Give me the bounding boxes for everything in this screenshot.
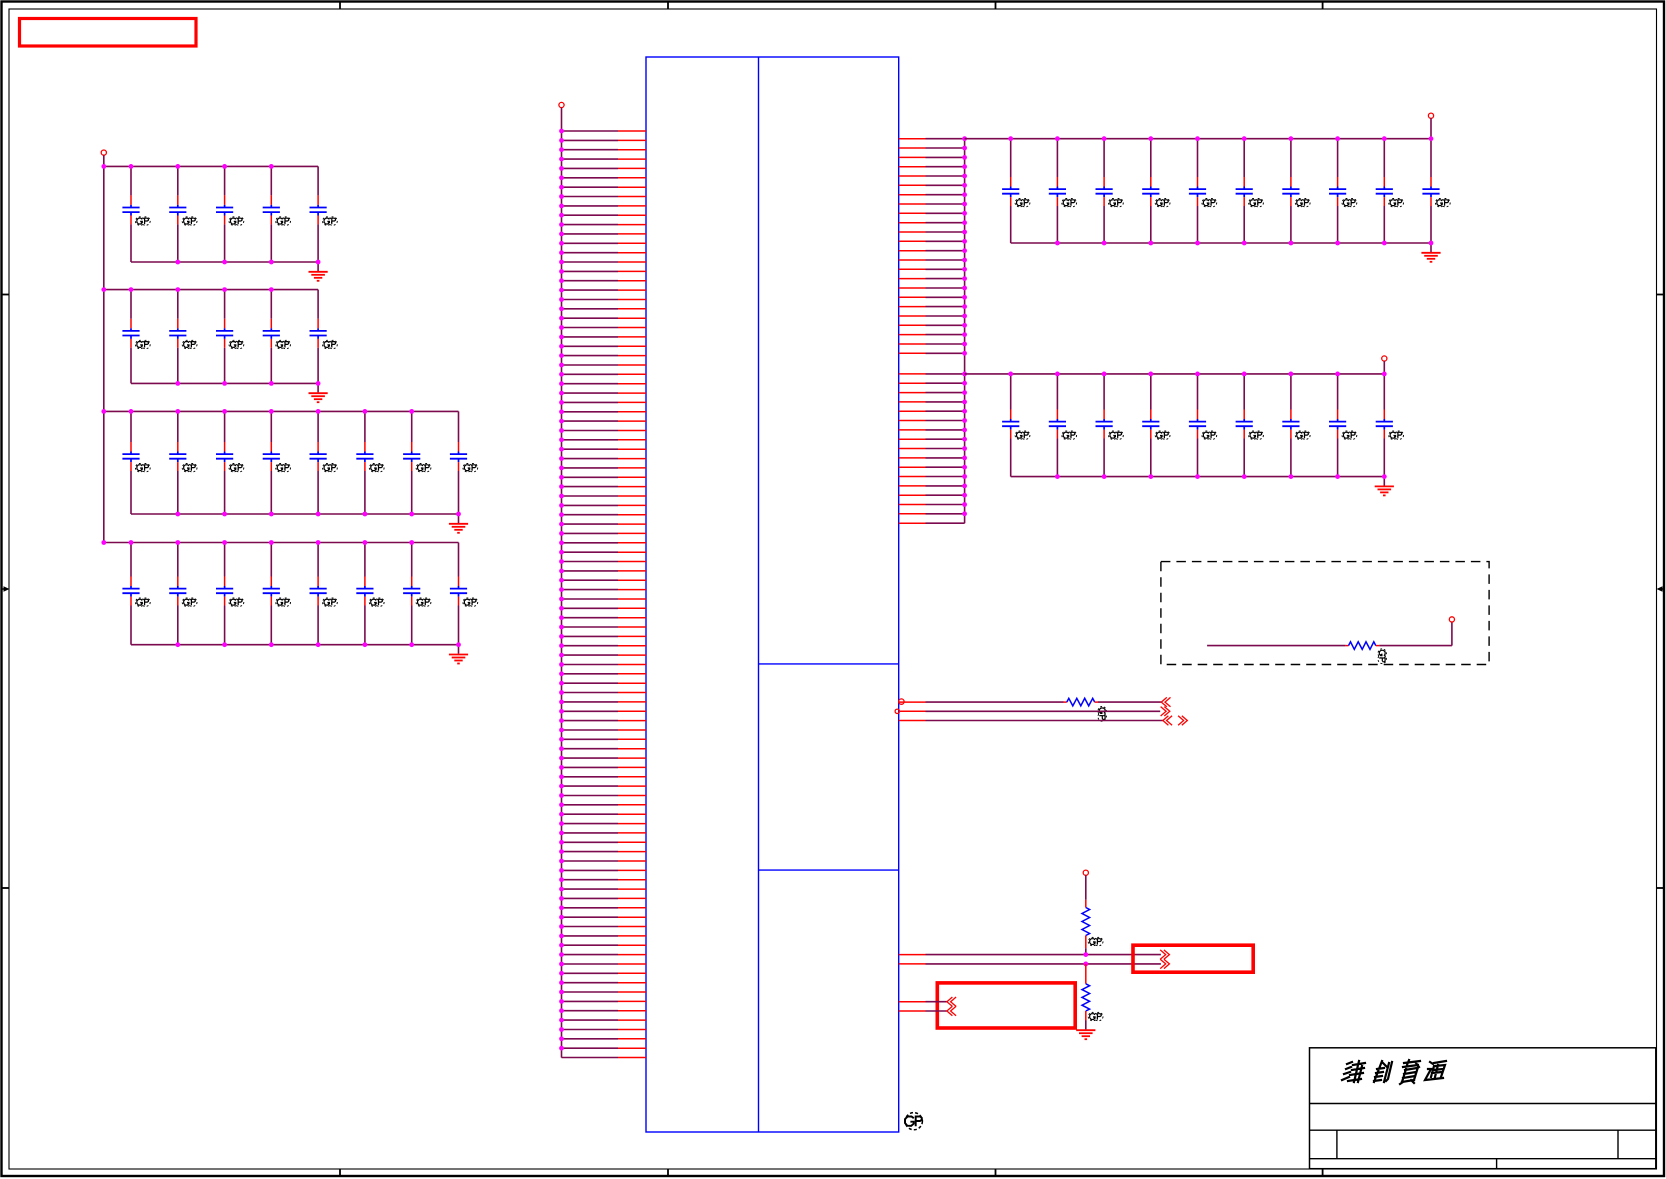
wire IC left pin 31 [562,411,647,413]
wire IC left pin 72 [562,795,647,797]
red annotation box (top-left) [20,19,197,47]
wire IC left pin 55 [562,635,647,637]
wire IC right pin group1 20 [899,315,965,317]
resistor R1 (in dashed box) [1349,642,1376,650]
wire IC right pin group1 23 [899,343,965,345]
junction B [1083,962,1088,967]
capacitor C35 (bypass) [1376,139,1404,243]
wire IC left pin 74 [562,813,647,815]
wire IC left pin 13 [562,242,647,244]
wire IC right pin group2 3 [899,392,965,394]
wire IC left pin 46 [562,551,647,553]
wire IC left pin 57 [562,654,647,656]
resistor R3 (pull-up) [1082,908,1090,936]
wire IC right pin group2 6 [899,420,965,422]
wire IC right pin group1 2 [899,147,965,149]
wire IC right pin group2 14 [899,494,965,496]
GP marker (R2) [1098,707,1106,722]
wire IC left pin 79 [562,860,647,862]
IC U1 GP marker [905,1113,922,1130]
capacitor C39 (bypass) [1096,374,1124,477]
wire IC left pin 2 [562,139,647,141]
wire top rail left bank 4 [104,542,459,544]
wire IC left pin 59 [562,673,647,675]
wire IC left pin 28 [562,383,647,385]
wire IC left pin 82 [562,888,647,890]
power node (right cap bank 2) [1382,356,1387,374]
power node (dashed box) [1449,617,1454,622]
wire IC right pin group1 12 [899,240,965,242]
wire IC left pin 52 [562,607,647,609]
wire IC left pin 99 [562,1047,647,1049]
wire IC right pin group1 9 [899,212,965,214]
junction dots right bus [962,136,967,516]
capacitor C34 (bypass) [1329,139,1357,243]
wire IC right pin group2 2 [899,382,965,384]
wire IC left pin 22 [562,327,647,329]
wire R3 to junction [1085,936,1087,955]
capacitor C27 (bypass) [1002,139,1030,243]
wire IC right pin group1 21 [899,324,965,326]
capacitor C13 (bypass) [216,411,244,514]
wire middle net 3 [899,720,1163,722]
wire IC right pin group1 8 [899,203,965,205]
wire IC right pin group2 8 [899,438,965,440]
wire IC left pin 35 [562,448,647,450]
wire IC left pin 94 [562,1000,647,1002]
capacitor C11 (bypass) [122,411,150,514]
wire IC right pin group1 6 [899,184,965,186]
resistor R4 (pull-down) [1082,984,1090,1011]
GP marker (R4) [1088,1012,1103,1020]
wire (dashed box net right) [1376,622,1452,646]
wire IC right pin group2 7 [899,429,965,431]
wire bottom net A [899,954,1161,956]
wire IC right pin group1 14 [899,259,965,261]
wire IC left pin 84 [562,907,647,909]
wire IC right pin group1 22 [899,334,965,336]
capacitor C14 (bypass) [263,411,291,514]
ground (pull-down) [1076,1020,1095,1039]
wire IC left pin 39 [562,486,647,488]
wire IC left pin 18 [562,289,647,291]
wire junction to R4 [1085,964,1087,984]
wire middle net 1 (left of R2) [899,699,1067,704]
wire IC left pin 69 [562,766,647,768]
wire bottom net C [899,1001,947,1003]
capacitor C16 (bypass) [356,411,384,514]
wire IC left pin 51 [562,598,647,600]
wire middle net 2 [895,709,1160,713]
capacitor C8 (bypass) [216,290,244,384]
capacitor C33 (bypass) [1282,139,1310,243]
junction dots left bank 3 [101,409,461,516]
wire IC right pin group1 10 [899,222,965,224]
wire IC left pin 77 [562,841,647,843]
ground (left bank 3) [449,514,468,533]
wire IC left pin 100 [562,1057,647,1059]
wire IC left pin 73 [562,804,647,806]
wire IC left pin 71 [562,785,647,787]
wire IC right pin group1 24 [899,352,965,354]
wire IC left pin 76 [562,832,647,834]
capacitor C42 (bypass) [1236,374,1264,477]
wire IC left pin 66 [562,738,647,740]
wire IC left pin 20 [562,308,647,310]
wire IC left pin 5 [562,167,647,169]
capacitor C19 (bypass) [122,543,150,645]
capacitor C15 (bypass) [310,411,338,514]
wire bottom rail right bank 2 [1011,476,1385,478]
capacitor C6 (bypass) [122,290,150,384]
wire IC left pin 44 [562,532,647,534]
wire IC left pin 30 [562,401,647,403]
off-page connector net3 left [1163,716,1172,725]
capacitor C21 (bypass) [216,543,244,645]
wire IC left pin 26 [562,364,647,366]
wire IC left pin 96 [562,1019,647,1021]
wire IC left pin 63 [562,710,647,712]
wire IC left pin 6 [562,177,647,179]
ground (left bank 1) [309,262,328,281]
capacitor C1 (bypass) [122,166,150,262]
capacitor C12 (bypass) [169,411,197,514]
wire IC left pin 97 [562,1029,647,1031]
off-page connector net D [947,1006,956,1015]
wire IC left pin 38 [562,476,647,478]
wire IC left pin 42 [562,514,647,516]
wire R4 to ground [1085,1011,1087,1021]
off-page connector net3 right [1178,716,1187,725]
capacitor C41 (bypass) [1189,374,1217,477]
title block frame [1310,1048,1656,1169]
wire IC right pin group1 1 [899,138,965,140]
capacitor C24 (bypass) [356,543,384,645]
wire IC left pin 24 [562,345,647,347]
wire top rail left bank 1 [104,165,318,167]
wire IC left pin 91 [562,972,647,974]
power node (left pin bus) [559,102,564,131]
power node (right cap bank 1) [1428,113,1433,139]
ground (left bank 4) [449,645,468,664]
wire bottom rail left bank 3 [131,513,459,515]
capacitor C22 (bypass) [263,543,291,645]
wire IC left pin 62 [562,701,647,703]
wire top rail right bank 2 [965,373,1385,375]
capacitor C43 (bypass) [1282,374,1310,477]
wire IC right pin group2 9 [899,448,965,450]
wire IC left pin 4 [562,158,647,160]
wire IC left pin 78 [562,851,647,853]
red annotation box 2 (left) [937,983,1075,1028]
wire IC left pin 17 [562,280,647,282]
capacitor C7 (bypass) [169,290,197,384]
capacitor C25 (bypass) [403,543,431,645]
ground (right bank 2) [1375,477,1394,496]
wire IC left pin 48 [562,570,647,572]
wire IC left pin 90 [562,963,647,965]
wire IC left pin 9 [562,205,647,207]
wire top rail left bank 3 [104,410,459,412]
wire IC right pin group1 18 [899,296,965,298]
wire IC left pin 27 [562,373,647,375]
ground (left bank 2) [309,383,328,402]
junction dots left bus [559,129,564,1051]
wire IC right pin group2 1 [899,373,965,375]
wire bottom net D [899,1010,947,1012]
wire IC left pin 12 [562,233,647,235]
capacitor C2 (bypass) [169,166,197,262]
ground (right bank 1) [1421,243,1440,262]
wire IC left pin 29 [562,392,647,394]
wire IC right pin group2 13 [899,485,965,487]
wire IC left pin 8 [562,196,647,198]
wire IC left pin 1 [562,130,647,132]
capacitor C38 (bypass) [1049,374,1077,477]
wire IC right pin group2 12 [899,476,965,478]
wire IC left pin 15 [562,261,647,263]
wire IC left pin 53 [562,617,647,619]
wire IC left pin 23 [562,336,647,338]
border zone ticks left/right [2,295,1665,889]
wire IC left pin 75 [562,823,647,825]
capacitor C29 (bypass) [1096,139,1124,243]
off-page connector net B [1160,959,1169,968]
border center arrow right [1657,586,1665,592]
capacitor C3 (bypass) [216,166,244,262]
wire IC right pin group2 16 [899,513,965,515]
resistor R2 [1067,698,1095,706]
capacitor C45 (bypass) [1376,374,1404,477]
capacitor C31 (bypass) [1189,139,1217,243]
wire IC right pin group2 17 [899,522,965,524]
junction A [1083,952,1088,957]
wire IC left pin 88 [562,944,647,946]
wire IC left pin 83 [562,897,647,899]
wire IC left pin 11 [562,224,647,226]
wire IC right pin group2 15 [899,504,965,506]
wire IC left pin 65 [562,729,647,731]
wire IC left pin 58 [562,664,647,666]
title text 緯創資通 (Wistron) [1342,1060,1446,1084]
wire IC left pin 89 [562,954,647,956]
wire IC left pin 16 [562,270,647,272]
wire IC left pin 36 [562,458,647,460]
wire IC right pin group1 19 [899,306,965,308]
wire IC left pin 67 [562,748,647,750]
capacitor C23 (bypass) [310,543,338,645]
wire IC left pin 85 [562,916,647,918]
wire bottom rail left bank 2 [131,382,318,384]
junction dots left bank 2 [101,287,320,386]
wire IC left pin 50 [562,589,647,591]
wire IC left pin 86 [562,926,647,928]
wire top rail right bank 1 [965,138,1431,140]
wire IC left pin 95 [562,1010,647,1012]
wire left cap bank bus [103,166,105,542]
wire (dashed box net left) [1207,645,1348,647]
wire IC left pin 54 [562,626,647,628]
off-page connector net C [947,997,956,1006]
capacitor C44 (bypass) [1329,374,1357,477]
wire IC left pin 37 [562,467,647,469]
wire IC left pin 92 [562,982,647,984]
capacitor C32 (bypass) [1236,139,1264,243]
off-page connector net2 [1161,707,1170,716]
wire bottom rail left bank 1 [131,261,318,263]
capacitor C30 (bypass) [1142,139,1170,243]
capacitor C36 (bypass) [1422,139,1450,243]
junction dots right bank 2 [1008,372,1386,480]
IC U1 (main connector/IC block) [646,57,899,1132]
capacitor C20 (bypass) [169,543,197,645]
wire IC left pin 64 [562,720,647,722]
capacitor C18 (bypass) [450,411,478,514]
wire IC right pin group1 15 [899,268,965,270]
junction dots left bank 4 [101,540,461,647]
off-page connector net1 [1161,697,1170,706]
wire IC right pin group2 5 [899,410,965,412]
wire IC left pin 87 [562,935,647,937]
junction dots right bank 1 [1008,136,1433,245]
wire IC left pin 40 [562,495,647,497]
wire IC right pin group2 4 [899,401,965,403]
wire IC left pin 21 [562,317,647,319]
wire bottom rail right bank 1 [1011,242,1431,244]
capacitor C40 (bypass) [1142,374,1170,477]
wire IC left pin 70 [562,776,647,778]
wire IC left pin 10 [562,214,647,216]
wire IC left pin 68 [562,757,647,759]
wire bottom rail left bank 4 [131,644,459,646]
off-page connector net A [1160,950,1169,959]
GP marker (R3) [1088,937,1103,945]
capacitor C28 (bypass) [1049,139,1077,243]
wire IC left pin 80 [562,869,647,871]
capacitor C37 (bypass) [1002,374,1030,477]
wire IC right pin group1 11 [899,231,965,233]
wire IC left pin 43 [562,523,647,525]
wire IC right pin group1 16 [899,278,965,280]
capacitor C9 (bypass) [263,290,291,384]
wire top rail left bank 2 [104,289,318,291]
wire IC right pin group1 4 [899,166,965,168]
wire middle net 1 (right of R2) [1095,701,1162,703]
wire IC left pin 7 [562,186,647,188]
junction dots left bank 1 [101,164,320,264]
wire IC right pin group1 3 [899,156,965,158]
power node (pull-up) [1083,870,1088,907]
wire IC right pin group1 7 [899,194,965,196]
wire IC left pin 81 [562,879,647,881]
wire IC left pin 56 [562,645,647,647]
wire IC right pin group2 11 [899,466,965,468]
wire IC left pin 93 [562,991,647,993]
capacitor C4 (bypass) [263,166,291,262]
capacitor C5 (bypass) [310,166,338,262]
wire right vertical bus [964,139,966,524]
wire bottom net B [899,963,1161,965]
wire IC left pin 61 [562,692,647,694]
wire IC left pin 60 [562,682,647,684]
wire IC right pin group1 13 [899,250,965,252]
wire IC left pin 25 [562,355,647,357]
wire IC right pin group2 10 [899,457,965,459]
capacitor C10 (bypass) [310,290,338,384]
wire IC left pin 32 [562,420,647,422]
wire IC right pin group1 5 [899,175,965,177]
wire IC left pin 19 [562,299,647,301]
wire IC left pin 33 [562,430,647,432]
dashed option box [1161,562,1489,665]
power node (left cap banks) [101,150,106,166]
wire IC left pin 41 [562,504,647,506]
wire left vertical bus [561,131,563,1058]
wire IC left pin 14 [562,252,647,254]
capacitor C17 (bypass) [403,411,431,514]
wire IC left pin 34 [562,439,647,441]
wire IC left pin 45 [562,542,647,544]
wire IC left pin 47 [562,561,647,563]
wire IC left pin 49 [562,579,647,581]
wire IC left pin 98 [562,1038,647,1040]
GP marker (dashed box resistor) [1378,649,1386,664]
red annotation box 1 (right) [1133,945,1253,972]
wire IC right pin group1 17 [899,287,965,289]
capacitor C26 (bypass) [450,543,478,645]
border zone ticks top/bottom [340,2,1323,1177]
wire IC left pin 3 [562,149,647,151]
border center arrow left [2,586,10,592]
